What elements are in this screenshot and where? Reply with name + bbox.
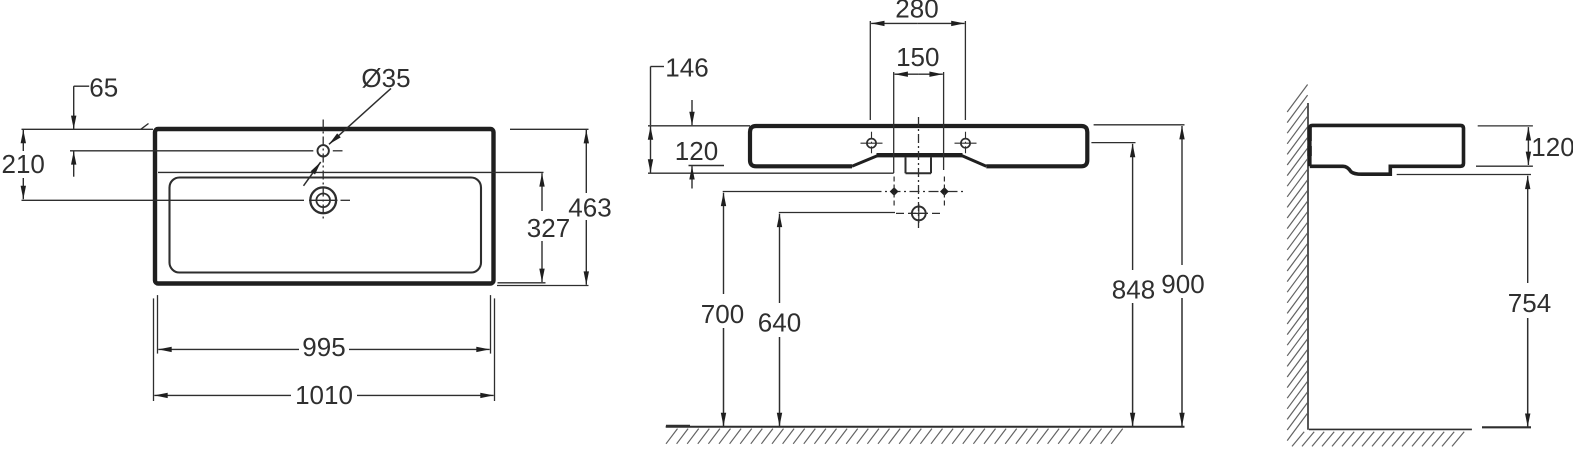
corner break tick top-left xyxy=(141,124,149,130)
top edge extension line left xyxy=(22,128,154,130)
vertical centerline through faucet and drain xyxy=(322,120,324,219)
recess diagonal right xyxy=(961,155,986,166)
basin rear ledge line xyxy=(158,171,544,173)
dimension text 463 xyxy=(568,193,611,223)
dimension 327 vertical line with arrows xyxy=(541,173,543,282)
front view vertical centerline xyxy=(918,117,920,231)
dimension text 700 xyxy=(701,299,744,329)
dimension 120 side line with arrows xyxy=(1527,127,1529,165)
wall bracket bars xyxy=(1307,127,1311,157)
dimension 995 line with arrows xyxy=(158,348,489,350)
dimension 848 extension line xyxy=(1091,142,1135,144)
dimension 150 line with arrows xyxy=(895,73,943,75)
dimension 65 bracket and arrows xyxy=(74,86,90,177)
svg-text:700: 700 xyxy=(701,299,744,329)
dimension 995 extension lines xyxy=(158,295,491,354)
dimension 1010 extension lines xyxy=(154,298,495,401)
dimension 150 extension lines xyxy=(894,72,944,173)
floor hatch strokes xyxy=(666,429,1123,444)
lowest point reference line xyxy=(648,172,894,174)
svg-text:65: 65 xyxy=(89,73,118,103)
dimension text 120 (side) xyxy=(1531,132,1573,162)
leader line lower segment with arrow xyxy=(304,162,321,186)
svg-text:754: 754 xyxy=(1508,288,1551,318)
bolt hole diamond right xyxy=(940,177,949,207)
floor extension line at 754 xyxy=(1482,426,1531,428)
svg-text:150: 150 xyxy=(896,42,939,72)
dimension 754 extension line top xyxy=(1397,174,1531,176)
dimension 848 line with arrows xyxy=(1132,144,1134,426)
dimension 463 vertical line with arrows xyxy=(585,130,587,285)
svg-text:120: 120 xyxy=(675,136,718,166)
dimension 327 extension line bottom xyxy=(498,282,546,284)
slab top extension line left xyxy=(648,125,750,127)
dimension 900 line with arrows xyxy=(1181,126,1183,426)
svg-text:848: 848 xyxy=(1112,275,1155,305)
basin inner bowl outline xyxy=(170,178,482,273)
svg-text:463: 463 xyxy=(568,193,611,223)
svg-text:280: 280 xyxy=(895,0,938,24)
svg-text:1010: 1010 xyxy=(295,380,353,410)
dimension text 640 xyxy=(758,308,801,338)
drain hole circles xyxy=(310,187,336,213)
dimension text 848 xyxy=(1112,275,1155,305)
recess bottom thick line xyxy=(877,153,963,157)
bolt holes reference line solid part xyxy=(723,191,872,193)
diameter label O35 xyxy=(361,63,410,93)
dimension text 65 xyxy=(89,73,118,103)
svg-text:327: 327 xyxy=(527,213,570,243)
leader line upper segment with arrow xyxy=(329,88,391,144)
svg-text:120: 120 xyxy=(1531,132,1573,162)
dimension 900 extension line xyxy=(1094,124,1185,126)
slab bottom level tick xyxy=(689,165,725,167)
wall hatching xyxy=(1287,85,1307,441)
dimension text 754 xyxy=(1508,288,1551,318)
floor hatching (side view) xyxy=(1292,432,1464,447)
wall line xyxy=(1307,103,1309,430)
washbasin front view outline with bottom recess xyxy=(750,126,1087,166)
svg-text:995: 995 xyxy=(302,332,345,362)
floor line (front view) xyxy=(666,425,1185,428)
dimension 280 extension lines xyxy=(870,21,965,120)
svg-text:640: 640 xyxy=(758,308,801,338)
drain trap rectangle xyxy=(906,157,932,173)
dimension text 900 xyxy=(1161,269,1204,299)
dimension text 210 xyxy=(2,149,45,179)
svg-text:146: 146 xyxy=(665,52,708,82)
bolt hole diamond left xyxy=(890,177,899,207)
dimension text 280 xyxy=(895,0,938,24)
dimension 1010 line with arrows xyxy=(154,394,493,396)
dimension text 1010 xyxy=(295,380,353,410)
dimension text 146 xyxy=(665,52,708,82)
svg-text:Ø35: Ø35 xyxy=(361,63,410,93)
faucet hole circle xyxy=(318,145,329,156)
svg-text:210: 210 xyxy=(2,149,45,179)
dimension text 150 xyxy=(896,42,939,72)
dimension text 120 (front) xyxy=(675,136,718,166)
drain fitting circle front xyxy=(910,204,929,223)
dimension 146 arrows (slab top to lowest point) xyxy=(650,126,652,172)
dimension text 327 xyxy=(527,213,570,243)
svg-text:900: 900 xyxy=(1161,269,1204,299)
bolt holes centerline dash-dot xyxy=(872,191,964,193)
dimension 754 line with arrows xyxy=(1527,176,1529,427)
drain centerline solid part (640 reference) xyxy=(779,212,895,214)
faucet hole centerline horizontal xyxy=(70,150,343,152)
floor line (side view) xyxy=(1309,428,1472,430)
dimension text 995 xyxy=(302,332,345,362)
dimension 640 line with arrows xyxy=(779,214,781,427)
dimension 210 vertical line with arrows xyxy=(22,130,24,199)
dimension 120 outside arrows xyxy=(691,100,693,189)
drain dashed crosshair horizontal xyxy=(896,212,941,214)
dimension 280 line with arrows xyxy=(871,22,965,24)
recess diagonal left xyxy=(852,155,879,166)
drain centerline horizontal xyxy=(22,199,351,201)
washbasin side profile xyxy=(1310,125,1464,174)
dimension 463 extension lines xyxy=(497,129,589,285)
dimension 146 bracket xyxy=(651,67,665,126)
dimension 120 side extension lines xyxy=(1476,126,1533,166)
fixing hole right xyxy=(955,132,977,154)
washbasin top view: outer rim xyxy=(155,129,494,284)
dimension 700 line with arrows xyxy=(723,193,725,427)
fixing hole left xyxy=(861,132,883,154)
